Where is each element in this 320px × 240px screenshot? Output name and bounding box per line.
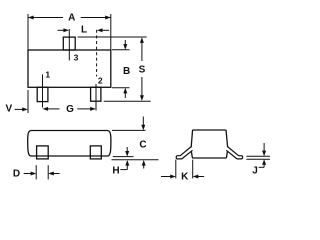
- svg-text:D: D: [13, 169, 20, 180]
- svg-text:L: L: [81, 25, 87, 36]
- svg-text:C: C: [139, 140, 146, 151]
- svg-text:B: B: [123, 66, 130, 77]
- svg-text:A: A: [68, 13, 75, 24]
- svg-text:S: S: [139, 65, 146, 76]
- svg-text:J: J: [252, 165, 258, 176]
- svg-text:H: H: [112, 166, 119, 177]
- svg-text:K: K: [181, 172, 189, 183]
- svg-text:G: G: [66, 104, 74, 115]
- svg-text:2: 2: [98, 76, 103, 86]
- svg-text:V: V: [5, 103, 12, 114]
- svg-text:3: 3: [74, 53, 79, 63]
- svg-text:1: 1: [45, 70, 50, 80]
